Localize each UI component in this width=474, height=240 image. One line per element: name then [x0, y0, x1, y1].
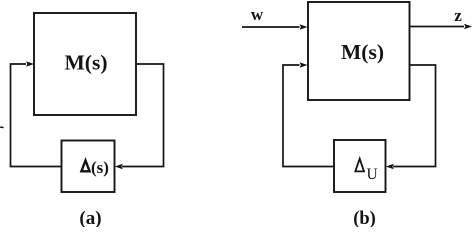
arrowhead into DeltaU right edge [386, 164, 394, 170]
label "Δ(s)": bold Delta triangle [81, 160, 89, 171]
svg-text:w: w [251, 5, 264, 24]
svg-text:z: z [454, 6, 462, 25]
block M1 "M(s)" [34, 13, 136, 115]
svg-text:(a): (a) [79, 208, 101, 227]
arrowhead of z at right image edge [464, 24, 472, 30]
wire: M1 output (right edge) right then down then left to Delta1 [122, 64, 164, 167]
label Delta triangle of DeltaU [355, 159, 364, 172]
svg-text:M(s): M(s) [65, 51, 108, 75]
svg-text:(b): (b) [353, 209, 376, 227]
block DeltaU [334, 140, 386, 192]
wire: M2 lower output (right edge) right then down then left into DeltaU [393, 65, 436, 167]
svg-text:U: U [367, 166, 378, 183]
arrowhead into M1 left edge [26, 61, 34, 67]
block Delta1 "Δ(s)" [62, 141, 115, 193]
arrowhead into Delta1 right edge [115, 164, 123, 170]
arrowhead into M2 left edge (lower input) [300, 62, 308, 68]
wire: Delta1 output (left edge) left then up then right into M1 input [11, 64, 62, 167]
scan artifact tick at left image edge [0, 126, 4, 129]
svg-text:M(s): M(s) [341, 40, 384, 64]
arrowhead of w into M2 left edge [300, 24, 308, 30]
wire: DeltaU output (left edge) left then up then right into M2 lower input [283, 65, 334, 167]
svg-text:(s): (s) [91, 158, 109, 177]
block M2 "M(s)" [308, 2, 410, 100]
wire: input w arrow into M2 [242, 26, 300, 28]
wire: output z from M2 right edge [410, 26, 465, 28]
